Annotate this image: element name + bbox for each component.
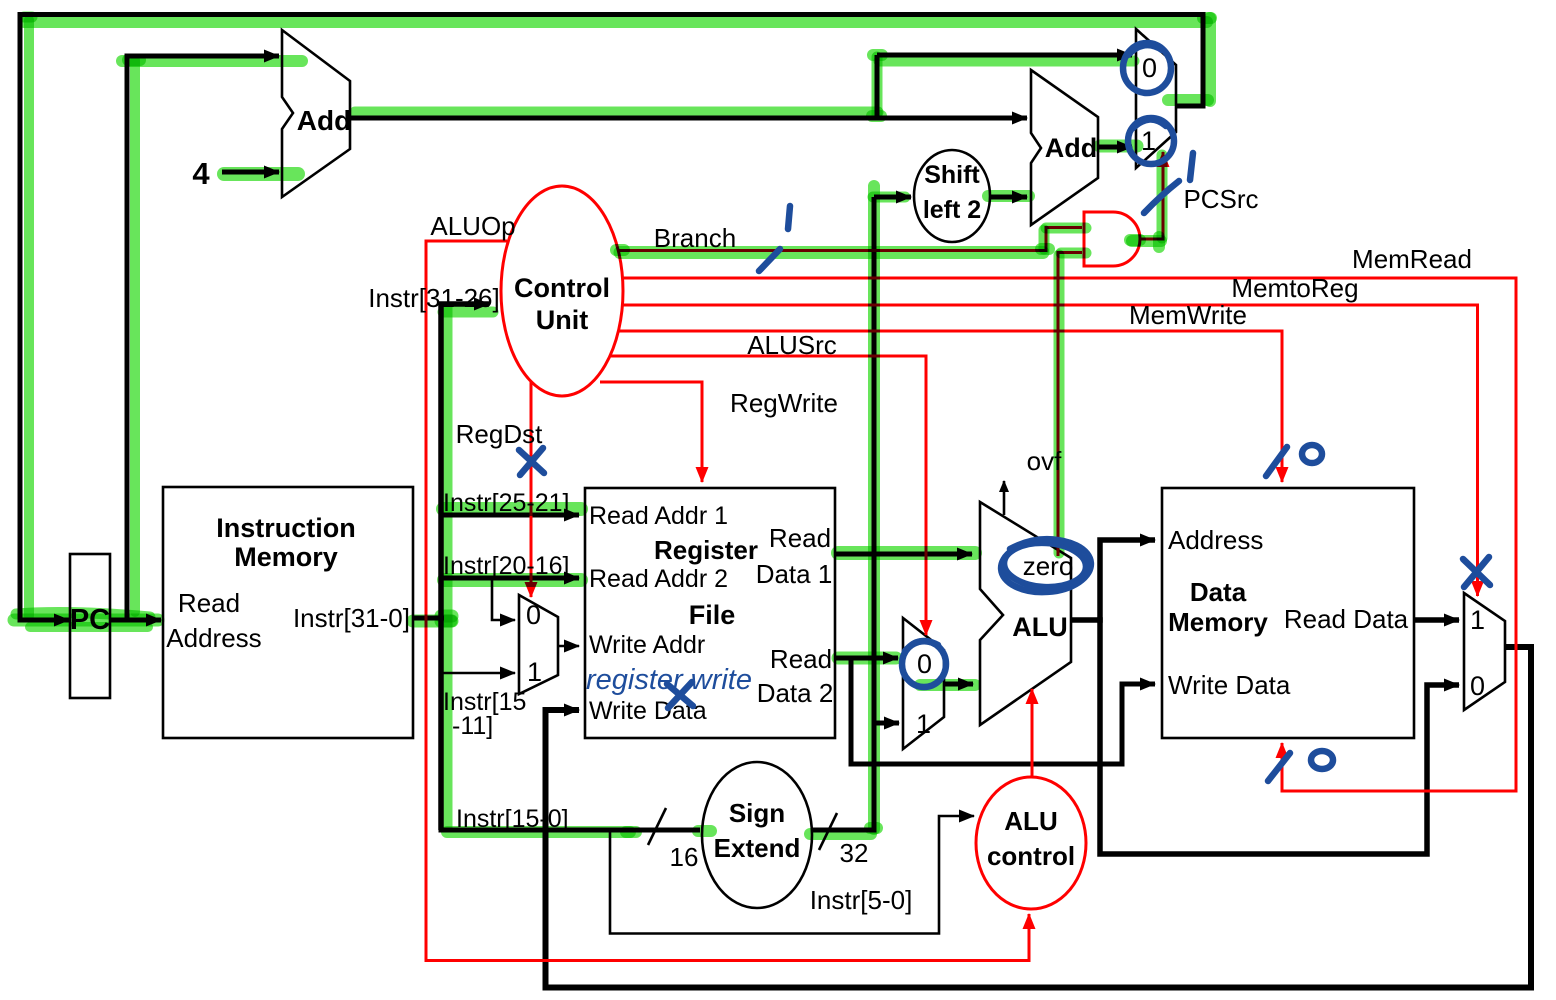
svg-text:Add: Add bbox=[297, 105, 351, 136]
PC register bbox=[70, 554, 110, 698]
wire highlight top bbox=[24, 16, 1207, 28]
svg-text:ALUOp: ALUOp bbox=[430, 211, 515, 241]
svg-text:Unit: Unit bbox=[536, 305, 588, 335]
red MemtoReg wire bbox=[623, 305, 1478, 596]
wire sign extend branch to ALUSrc mux 1 bbox=[874, 721, 899, 726]
ALU bbox=[980, 502, 1071, 725]
blue circle around ALUSrc 0 bbox=[902, 641, 946, 687]
wire highlight mux out bbox=[1168, 94, 1208, 106]
wire highlight AND out bbox=[1132, 235, 1161, 247]
wire instr bus spine bbox=[441, 304, 489, 830]
blue slash and 0 below data memory bbox=[1268, 753, 1290, 781]
svg-text:Write Addr: Write Addr bbox=[589, 631, 705, 659]
svg-text:zero: zero bbox=[1023, 551, 1074, 581]
svg-text:1: 1 bbox=[1141, 126, 1156, 156]
blue X on write addr bbox=[667, 682, 693, 708]
blue circle around mux 1 bbox=[1128, 118, 1174, 164]
wire ALU result down around to MemtoReg mux 0 bbox=[1100, 617, 1459, 854]
svg-text:1: 1 bbox=[1470, 605, 1485, 635]
svg-text:0: 0 bbox=[1142, 53, 1157, 83]
mux MemtoReg bbox=[1464, 593, 1505, 710]
blue circle around mux 0 bbox=[1123, 43, 1171, 93]
svg-text:RegWrite: RegWrite bbox=[730, 388, 838, 418]
wire highlight zero bbox=[1054, 255, 1065, 553]
wire PC out to instruction memory bbox=[110, 618, 161, 623]
svg-text:Read Addr 2: Read Addr 2 bbox=[589, 565, 728, 593]
svg-text:0: 0 bbox=[1470, 671, 1485, 701]
svg-text:PCSrc: PCSrc bbox=[1183, 184, 1258, 214]
wire highlight sign extend out bbox=[810, 828, 871, 840]
svg-text:Data 2: Data 2 bbox=[757, 678, 834, 708]
wire highlight instr31-0 bbox=[413, 615, 451, 628]
wire highlight add top input bbox=[122, 55, 302, 67]
wire highlight read data 2 bbox=[838, 652, 896, 665]
wire Read Data to MemtoReg mux 1 bbox=[1414, 617, 1459, 623]
wire ovf bbox=[1003, 481, 1006, 515]
wire highlight 4 input bbox=[224, 167, 298, 181]
mux ALUSrc bbox=[903, 618, 944, 749]
svg-text:-11]: -11] bbox=[452, 712, 493, 740]
svg-text:MemtoReg: MemtoReg bbox=[1231, 273, 1358, 303]
wire highlight pc+4 to mux bbox=[879, 56, 1134, 67]
svg-text:Sign: Sign bbox=[729, 798, 785, 828]
wire Add2 out to mux 1 bbox=[1098, 145, 1132, 150]
svg-text:Instr[5-0]: Instr[5-0] bbox=[810, 885, 913, 915]
wire highlight instr15-0 bbox=[447, 826, 630, 838]
svg-text:Control: Control bbox=[514, 273, 610, 303]
svg-text:4: 4 bbox=[192, 156, 210, 191]
wire highlight pc inputs bbox=[14, 614, 158, 627]
wire shift left 2 out to Add2 bbox=[990, 195, 1027, 200]
wire into shift left 2 bbox=[874, 195, 911, 200]
svg-text:Address: Address bbox=[166, 623, 261, 653]
red MemRead wire bbox=[623, 278, 1516, 791]
wire Instr[20-16] to Read Addr 2 bbox=[441, 576, 579, 581]
wire highlight pc branch vertical bbox=[130, 60, 140, 612]
svg-text:Read Data: Read Data bbox=[1284, 604, 1409, 634]
mux RegDst bbox=[519, 595, 558, 694]
wire highlight branch bbox=[620, 246, 1043, 259]
red AND out to PCSrc mux bbox=[1140, 152, 1163, 239]
svg-text:ALU: ALU bbox=[1012, 612, 1068, 642]
svg-text:ALU: ALU bbox=[1004, 806, 1057, 836]
svg-text:Add: Add bbox=[1045, 133, 1097, 163]
red ALU control to ALU bbox=[1031, 689, 1034, 776]
blue scribble around zero bbox=[999, 537, 1092, 595]
blue slash and 0 above data memory bbox=[1266, 447, 1287, 476]
wire ALU result out bbox=[1071, 617, 1100, 623]
svg-text:Memory: Memory bbox=[1168, 607, 1268, 637]
svg-text:Instr[31-0]: Instr[31-0] bbox=[293, 603, 410, 633]
wire highlight instr20-16 bbox=[444, 573, 581, 587]
junction highlight blob instr bus bbox=[441, 610, 452, 623]
wire Instr[15-11] to RegDst mux 1 bbox=[441, 672, 515, 675]
ALU control ellipse bbox=[976, 777, 1086, 909]
red zero wire to AND gate bbox=[1058, 253, 1082, 557]
blue 1 tick near PCSrc bbox=[1144, 153, 1193, 213]
svg-text:control: control bbox=[987, 841, 1075, 871]
svg-text:Address: Address bbox=[1168, 525, 1263, 555]
shift left 2 ellipse bbox=[914, 150, 990, 242]
wire PC+4 to mux 0 bbox=[877, 53, 1132, 58]
svg-text:Register: Register bbox=[654, 535, 758, 565]
junction highlight blob top right corner bbox=[1203, 12, 1211, 24]
svg-text:Data: Data bbox=[1190, 577, 1247, 607]
wire Instr[5-0] to ALU control bbox=[610, 816, 974, 934]
wire highlight pc+4 bbox=[355, 107, 878, 118]
wire highlight pc+4 up bbox=[872, 57, 883, 115]
wire Read Data 2 down around to Data Memory Write Data bbox=[851, 656, 1155, 765]
wire instr out of memory bbox=[413, 616, 444, 621]
junction highlight blob and gate output bbox=[1130, 234, 1140, 246]
blue 1 tick near branch bbox=[759, 206, 790, 271]
wire PC+4 up branch bbox=[875, 55, 880, 121]
svg-text:Data 1: Data 1 bbox=[756, 559, 833, 589]
instruction memory bbox=[163, 487, 413, 738]
wire highlight instr31-26 bbox=[443, 307, 493, 318]
wire highlight instr25-21 bbox=[443, 502, 581, 516]
junction highlight blob branch corner bbox=[1041, 243, 1049, 255]
svg-text:Read Addr 1: Read Addr 1 bbox=[589, 502, 728, 530]
adder Add (PC+4) bbox=[282, 30, 350, 197]
mux PCSrc (top right) bbox=[1136, 29, 1176, 168]
wire 4 into Add bbox=[222, 170, 279, 175]
wire highlight pc input wavy bbox=[16, 613, 150, 617]
svg-text:MemRead: MemRead bbox=[1352, 244, 1472, 274]
blue X below RegDst bbox=[519, 448, 544, 475]
svg-text:1: 1 bbox=[527, 657, 542, 687]
svg-text:register write: register write bbox=[586, 664, 752, 696]
svg-text:Instruction: Instruction bbox=[216, 513, 356, 543]
wire new PC loop: mux out, top, left, into PC bbox=[20, 15, 1203, 621]
svg-text:1: 1 bbox=[916, 709, 931, 739]
sign extend ellipse bbox=[702, 762, 812, 908]
red RegDst wire bbox=[530, 382, 533, 597]
wire RegDst mux out to Write Addr bbox=[558, 645, 579, 648]
svg-text:16: 16 bbox=[670, 842, 699, 872]
svg-text:Read: Read bbox=[178, 588, 240, 618]
red Branch wire to AND gate bbox=[619, 228, 1082, 251]
svg-text:Read: Read bbox=[770, 644, 832, 674]
red MemWrite wire bbox=[619, 331, 1282, 482]
junction highlight blob pc+4 branch bbox=[872, 110, 881, 122]
svg-text:MemWrite: MemWrite bbox=[1129, 300, 1247, 330]
junction highlight blob top left corner bbox=[24, 12, 32, 23]
wire Instr[20-16] branch to RegDst mux 0 bbox=[492, 578, 515, 620]
wire highlight add2 out bbox=[1100, 140, 1137, 153]
red ALUOp wire to ALU control bbox=[426, 241, 1029, 961]
red ALUSrc wire bbox=[611, 356, 926, 635]
svg-text:Extend: Extend bbox=[714, 833, 801, 863]
wire highlight read data 1 bbox=[838, 546, 975, 560]
svg-text:ALUSrc: ALUSrc bbox=[747, 330, 837, 360]
adder Add (branch target) bbox=[1031, 70, 1098, 225]
svg-text:File: File bbox=[689, 600, 736, 630]
wire Add out (PC+4) to Add2 bbox=[350, 116, 1027, 121]
wire Instr[15-0] to sign extend bbox=[439, 828, 701, 833]
data memory bbox=[1162, 488, 1414, 738]
wire highlight spine bbox=[442, 307, 453, 827]
svg-text:Memory: Memory bbox=[234, 542, 338, 572]
wire Read Data 1 to ALU bbox=[835, 552, 972, 557]
junction highlight blob sign extend corner bbox=[870, 822, 877, 834]
bus slash 32 bbox=[819, 813, 837, 850]
svg-text:0: 0 bbox=[917, 649, 932, 679]
AND gate (branch) bbox=[1084, 212, 1140, 266]
wire sign extend out up bbox=[812, 197, 874, 830]
wire highlight shift in/out bbox=[873, 192, 905, 203]
junction highlight blob instr15-0 bbox=[626, 826, 636, 838]
control unit ellipse bbox=[501, 186, 623, 396]
wire Instr[25-21] to Read Addr 1 bbox=[441, 513, 579, 518]
wire PC out branch up to Add bbox=[127, 56, 279, 623]
svg-text:left 2: left 2 bbox=[923, 196, 981, 224]
junction highlight blob branch start bbox=[616, 244, 624, 256]
wire highlight alusrc out bbox=[920, 679, 975, 691]
svg-text:Write Data: Write Data bbox=[1168, 670, 1291, 700]
svg-text:Shift: Shift bbox=[924, 161, 980, 189]
junction highlight blob pc branch corner bbox=[128, 54, 140, 66]
bus slash 16 bbox=[648, 808, 666, 845]
green highlighter strokes bbox=[14, 17, 1211, 834]
wire ALU result to Address bbox=[1100, 540, 1155, 623]
blue X above MemtoReg mux bbox=[1463, 557, 1490, 587]
svg-text:0: 0 bbox=[526, 600, 541, 630]
red RegWrite wire bbox=[600, 382, 702, 482]
svg-text:RegDst: RegDst bbox=[456, 419, 543, 449]
svg-text:32: 32 bbox=[840, 838, 869, 868]
wire highlight left vertical bbox=[24, 20, 34, 616]
wire MemtoReg mux out feedback to Write Data bbox=[546, 647, 1532, 988]
wire Read Data 2 to ALUSrc mux 0 bbox=[835, 656, 898, 661]
register file bbox=[585, 488, 835, 738]
svg-text:Read: Read bbox=[769, 523, 831, 553]
wire ALUSrc mux out to ALU bbox=[944, 682, 973, 687]
